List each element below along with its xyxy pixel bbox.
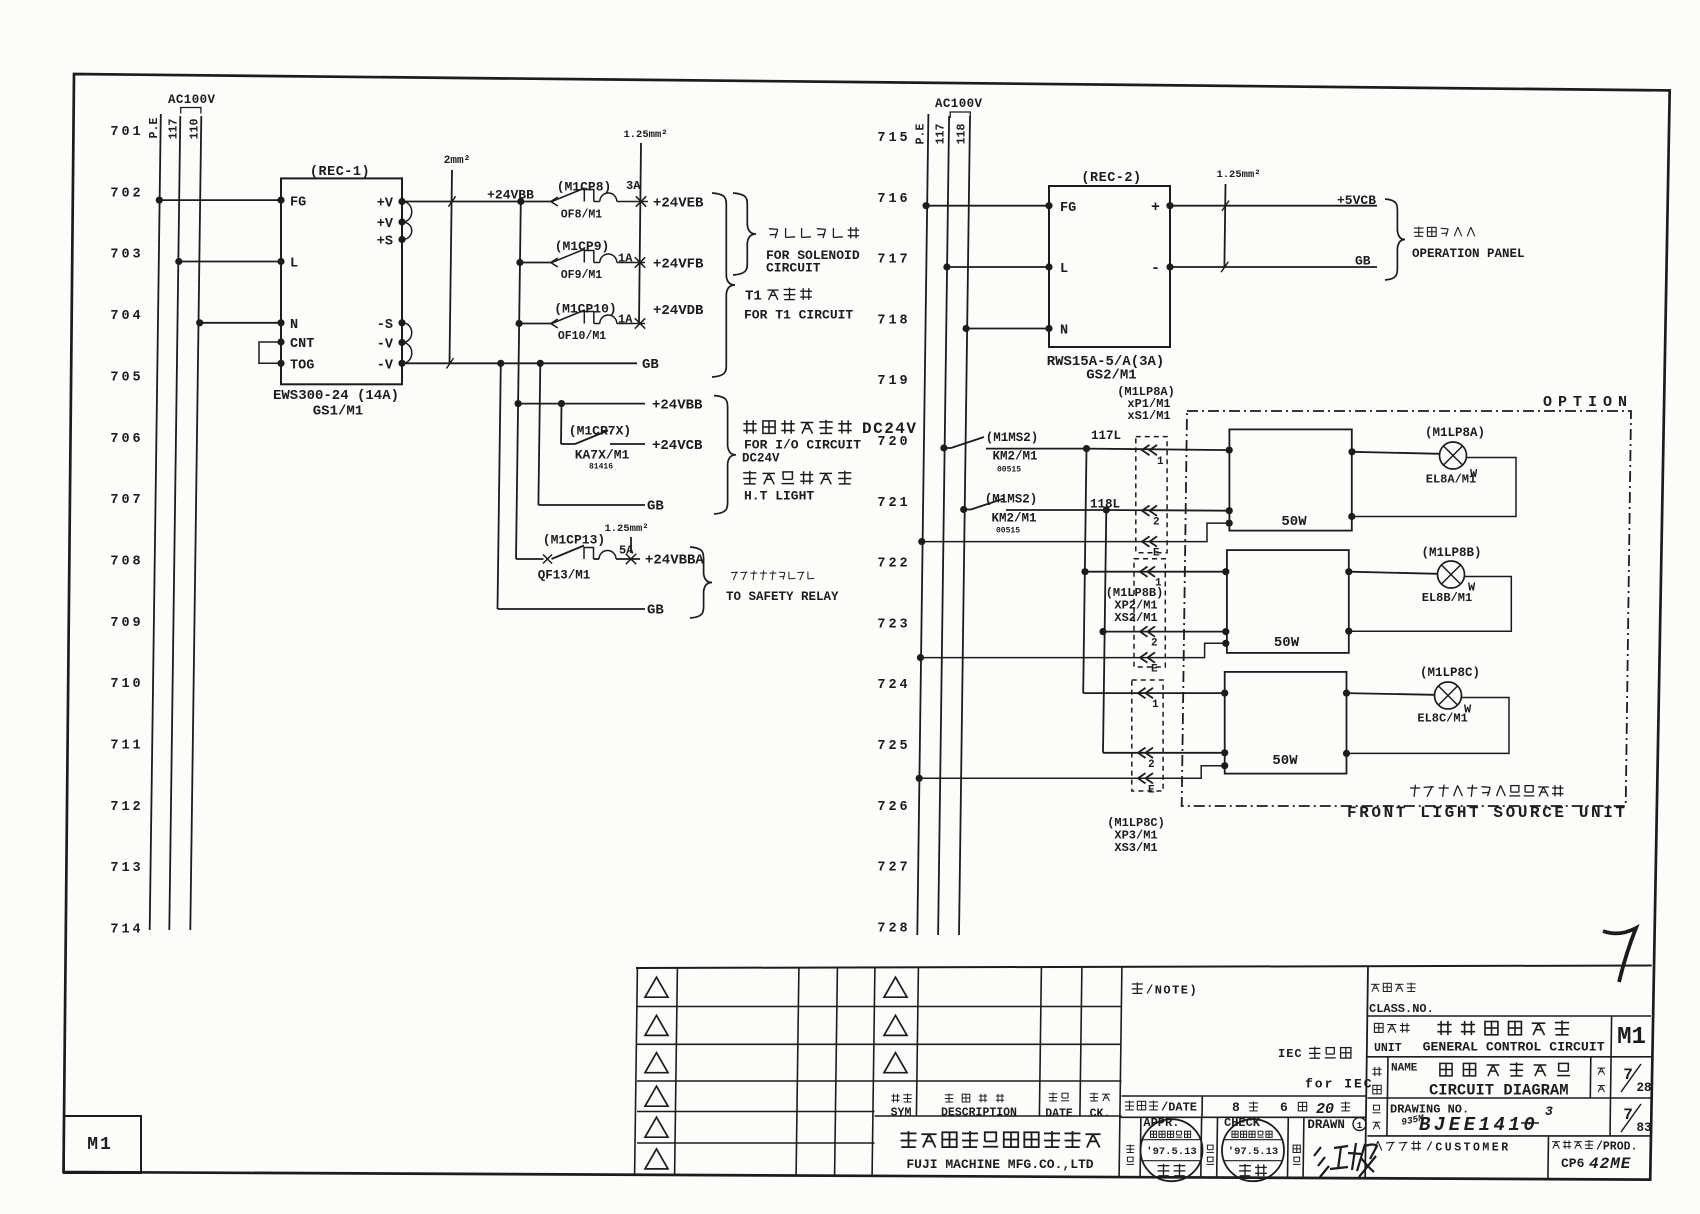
svg-text:709: 709 [110, 616, 143, 631]
svg-text:-: - [1151, 260, 1160, 277]
svg-text:724: 724 [877, 678, 910, 693]
svg-text:TOG: TOG [290, 358, 314, 373]
svg-text:00515: 00515 [997, 466, 1021, 475]
svg-text:E: E [1151, 664, 1158, 676]
svg-text:EL8A/M1: EL8A/M1 [1426, 473, 1476, 487]
svg-text:723: 723 [877, 617, 910, 632]
svg-text:704: 704 [110, 309, 143, 324]
svg-text:XS3/M1: XS3/M1 [1114, 841, 1157, 855]
svg-text:M1: M1 [1617, 1024, 1646, 1051]
svg-text:(REC-2): (REC-2) [1081, 171, 1141, 186]
svg-text:CNT: CNT [290, 337, 314, 352]
svg-text:(M1LP8C): (M1LP8C) [1420, 666, 1480, 680]
svg-text:CP6: CP6 [1561, 1156, 1585, 1171]
svg-text:722: 722 [877, 557, 910, 572]
svg-text:1.25mm²: 1.25mm² [604, 523, 648, 535]
svg-text:FRONT LIGHT SOURCE UNIT: FRONT LIGHT SOURCE UNIT [1347, 804, 1628, 822]
svg-text:703: 703 [110, 248, 143, 263]
svg-text:GS2/M1: GS2/M1 [1086, 368, 1136, 384]
svg-text:DESCRIPTION: DESCRIPTION [941, 1107, 1017, 1120]
svg-text:QF13/M1: QF13/M1 [538, 569, 591, 583]
svg-text:708: 708 [110, 555, 143, 570]
svg-text:3: 3 [1545, 1104, 1553, 1119]
svg-text:SYM: SYM [891, 1107, 912, 1120]
svg-text:+24VFB: +24VFB [653, 257, 704, 273]
svg-text:L: L [290, 257, 298, 272]
svg-text:(M1MS2): (M1MS2) [985, 493, 1038, 507]
svg-text:DC24V: DC24V [862, 420, 918, 438]
svg-text:3A: 3A [626, 179, 641, 193]
svg-text:707: 707 [110, 493, 143, 508]
svg-text:GS1/M1: GS1/M1 [313, 404, 363, 420]
svg-text:20: 20 [1316, 1101, 1334, 1118]
svg-text:+24VBB: +24VBB [487, 188, 534, 203]
svg-text:XS2/M1: XS2/M1 [1114, 611, 1157, 625]
svg-text:+V: +V [377, 217, 394, 232]
svg-text:IEC: IEC [1278, 1047, 1303, 1061]
svg-text:721: 721 [877, 496, 910, 511]
svg-text:FOR I/O CIRCUIT: FOR I/O CIRCUIT [744, 438, 861, 453]
svg-text:DATE: DATE [1045, 1108, 1073, 1121]
svg-text:28: 28 [1636, 1081, 1651, 1095]
svg-text:117: 117 [935, 124, 948, 145]
svg-text:701: 701 [110, 125, 143, 140]
svg-text:(M1LP8B): (M1LP8B) [1421, 546, 1481, 560]
svg-text:(M1MS2): (M1MS2) [986, 431, 1039, 445]
svg-text:1.25mm²: 1.25mm² [623, 129, 667, 141]
svg-text:AC100V: AC100V [168, 93, 216, 107]
svg-text:(M1CP9): (M1CP9) [555, 239, 610, 254]
svg-text:/DATE: /DATE [1161, 1101, 1197, 1115]
svg-text:+24VCB: +24VCB [652, 438, 703, 454]
svg-text:50W: 50W [1281, 514, 1307, 530]
svg-text:714: 714 [110, 923, 143, 938]
svg-text:110: 110 [189, 119, 202, 140]
svg-text:+24VBB: +24VBB [652, 398, 703, 414]
svg-text:KM2/M1: KM2/M1 [992, 450, 1037, 464]
svg-text:-S: -S [377, 318, 393, 333]
svg-text:705: 705 [110, 370, 143, 385]
svg-text:GB: GB [1355, 254, 1371, 269]
svg-text:727: 727 [877, 861, 910, 876]
svg-text:T1: T1 [745, 289, 762, 305]
svg-text:-V: -V [377, 358, 394, 373]
svg-text:1A: 1A [618, 313, 633, 327]
svg-text:NAME: NAME [1391, 1063, 1418, 1075]
svg-text:(M1LP8A): (M1LP8A) [1425, 426, 1485, 440]
svg-text:UNIT: UNIT [1374, 1042, 1402, 1055]
svg-text:8: 8 [1232, 1100, 1240, 1115]
svg-text:BJEE1410: BJEE1410 [1419, 1114, 1538, 1136]
svg-text:728: 728 [877, 921, 910, 936]
svg-text:OPERATION PANEL: OPERATION PANEL [1412, 247, 1525, 261]
svg-text:E: E [1148, 784, 1155, 796]
svg-text:OPTION: OPTION [1543, 394, 1633, 411]
svg-text:-V: -V [377, 338, 394, 353]
svg-text:/CUSTOMER: /CUSTOMER [1426, 1142, 1511, 1155]
svg-text:P.E: P.E [915, 124, 928, 145]
svg-text:706: 706 [110, 432, 143, 447]
svg-text:P.E: P.E [148, 118, 161, 139]
svg-text:50W: 50W [1272, 753, 1298, 769]
svg-text:6: 6 [1280, 1100, 1288, 1115]
svg-text:FG: FG [290, 196, 306, 211]
svg-text:00515: 00515 [996, 527, 1020, 536]
svg-text:+24VEB: +24VEB [653, 196, 704, 212]
svg-text:1A: 1A [618, 252, 633, 266]
svg-text:OF8/M1: OF8/M1 [561, 209, 603, 222]
svg-text:726: 726 [877, 800, 910, 815]
svg-text:+24VBBA: +24VBBA [645, 553, 704, 569]
svg-text:CHECK: CHECK [1224, 1116, 1261, 1130]
svg-text:DC24V: DC24V [742, 452, 780, 466]
svg-text:E: E [1153, 548, 1160, 560]
svg-text:1: 1 [1152, 699, 1159, 711]
svg-text:1: 1 [1157, 456, 1164, 468]
svg-text:117L: 117L [1091, 429, 1121, 443]
svg-text:L: L [1060, 262, 1068, 277]
svg-text:710: 710 [110, 677, 143, 692]
svg-text:KM2/M1: KM2/M1 [991, 512, 1036, 526]
svg-text:N: N [1060, 324, 1068, 339]
svg-text:'97.5.13: '97.5.13 [1228, 1146, 1278, 1158]
svg-text:TO SAFETY RELAY: TO SAFETY RELAY [726, 590, 839, 604]
svg-text:717: 717 [877, 253, 910, 268]
svg-text:CK.: CK. [1090, 1108, 1111, 1121]
svg-text:GB: GB [647, 499, 664, 515]
svg-text:2mm²: 2mm² [444, 155, 470, 167]
svg-text:+V: +V [377, 197, 394, 212]
svg-text:(M1CP10): (M1CP10) [554, 302, 616, 317]
svg-text:(REC-1): (REC-1) [310, 165, 370, 180]
svg-text:GENERAL CONTROL CIRCUIT: GENERAL CONTROL CIRCUIT [1423, 1040, 1605, 1055]
svg-text:GB: GB [647, 603, 664, 619]
svg-text:50W: 50W [1274, 635, 1300, 651]
svg-text:DRAWN: DRAWN [1307, 1118, 1345, 1132]
svg-text:(M1CP13): (M1CP13) [543, 533, 605, 548]
svg-text:+: + [1151, 199, 1160, 216]
svg-text:712: 712 [110, 800, 143, 815]
svg-text:CLASS.NO.: CLASS.NO. [1369, 1002, 1434, 1016]
svg-text:/NOTE): /NOTE) [1146, 984, 1198, 998]
svg-text:715: 715 [877, 131, 910, 146]
svg-text:718: 718 [877, 313, 910, 328]
svg-text:GB: GB [642, 357, 659, 373]
svg-text:2: 2 [1148, 759, 1155, 771]
svg-text:1.25mm²: 1.25mm² [1216, 169, 1260, 181]
svg-text:CIRCUIT DIAGRAM: CIRCUIT DIAGRAM [1429, 1082, 1569, 1100]
svg-text:2: 2 [1153, 517, 1160, 529]
svg-text:(M1CP8): (M1CP8) [557, 180, 612, 195]
svg-text:711: 711 [110, 739, 143, 754]
svg-text:81416: 81416 [589, 463, 613, 472]
svg-text:OF9/M1: OF9/M1 [561, 269, 603, 282]
svg-text:FG: FG [1060, 201, 1076, 216]
svg-text:H.T LIGHT: H.T LIGHT [744, 489, 814, 504]
svg-text:EL8B/M1: EL8B/M1 [1422, 591, 1472, 605]
svg-text:xS1/M1: xS1/M1 [1127, 409, 1170, 423]
svg-text:CIRCUIT: CIRCUIT [766, 261, 821, 276]
svg-text:+5VCB: +5VCB [1337, 193, 1376, 208]
svg-text:for IEC: for IEC [1305, 1077, 1374, 1092]
svg-text:FUJI MACHINE MFG.CO.,LTD: FUJI MACHINE MFG.CO.,LTD [906, 1157, 1093, 1172]
svg-text:118: 118 [956, 124, 969, 145]
svg-text:2: 2 [1151, 638, 1158, 650]
svg-text:(M1CR7X): (M1CR7X) [569, 424, 631, 439]
svg-text:KA7X/M1: KA7X/M1 [575, 448, 630, 463]
svg-text:EL8C/M1: EL8C/M1 [1417, 712, 1467, 726]
svg-text:716: 716 [877, 192, 910, 207]
svg-text:713: 713 [110, 861, 143, 876]
svg-text:83: 83 [1636, 1121, 1651, 1135]
svg-text:FOR T1 CIRCUIT: FOR T1 CIRCUIT [744, 308, 853, 323]
svg-text:702: 702 [110, 186, 143, 201]
svg-text:EWS300-24 (14A): EWS300-24 (14A) [273, 388, 399, 404]
svg-text:AC100V: AC100V [935, 97, 983, 111]
svg-text:1: 1 [1357, 1121, 1363, 1131]
svg-text:'97.5.13: '97.5.13 [1146, 1146, 1196, 1158]
svg-text:N: N [290, 318, 298, 333]
svg-text:5A: 5A [619, 544, 634, 558]
svg-text:/PROD.: /PROD. [1596, 1141, 1637, 1154]
svg-text:117: 117 [168, 119, 181, 140]
svg-text:725: 725 [877, 739, 910, 754]
svg-text:+S: +S [377, 235, 393, 250]
svg-text:42ME: 42ME [1589, 1155, 1631, 1173]
svg-text:M1: M1 [87, 1135, 113, 1155]
svg-text:+24VDB: +24VDB [653, 303, 704, 319]
svg-text:OF10/M1: OF10/M1 [558, 330, 606, 343]
svg-text:719: 719 [877, 374, 910, 389]
